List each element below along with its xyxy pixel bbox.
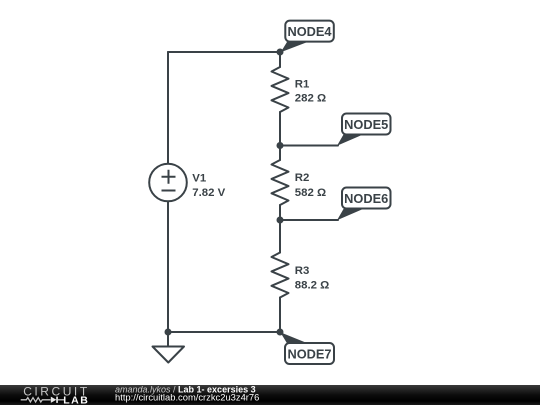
svg-text:NODE5: NODE5 (344, 117, 388, 132)
node NODE4 (281, 21, 334, 53)
R1 value labels (295, 78, 326, 104)
resistor R3 (272, 253, 289, 298)
svg-text:R1: R1 (295, 78, 310, 90)
node dot NODE5 junction (277, 142, 284, 149)
CircuitLab logo wire to LAB (58, 399, 64, 401)
node NODE7 (280, 332, 334, 364)
wire NODE6 tail (280, 219, 338, 221)
svg-text:R2: R2 (295, 172, 310, 184)
resistor R1 (272, 67, 289, 112)
node dot NODE6 junction (277, 217, 284, 224)
ground stub wire (167, 332, 169, 347)
CircuitLab logo resistor zigzag (21, 398, 51, 402)
wire right rail between R2 and R3 (279, 205, 281, 253)
R2 value labels (295, 172, 326, 199)
wire right rail between R1 and R2 (279, 112, 281, 160)
wire left rail lower (167, 201, 169, 332)
wire bottom horizontal (168, 331, 280, 333)
svg-text:7.82 V: 7.82 V (192, 187, 225, 199)
wire right rail segment top (279, 52, 281, 67)
svg-text:582 Ω: 582 Ω (295, 187, 326, 199)
node dot top (NODE4 junction) (277, 49, 284, 56)
node NODE5 (337, 114, 391, 146)
svg-text:NODE4: NODE4 (287, 24, 332, 39)
resistor R2 (272, 160, 289, 205)
node dot NODE7 junction (277, 329, 284, 336)
footer bar (0, 385, 540, 405)
svg-text:LAB: LAB (63, 394, 89, 405)
wire left rail upper (167, 52, 169, 164)
node NODE6 (337, 188, 391, 221)
wire NODE5 tail (280, 145, 338, 147)
svg-text:R3: R3 (295, 265, 310, 277)
wire top horizontal (168, 51, 280, 53)
svg-text:V1: V1 (192, 172, 207, 184)
svg-text:282 Ω: 282 Ω (295, 92, 326, 104)
CircuitLab logo diode (51, 397, 58, 403)
wire right rail bottom (279, 298, 281, 333)
R3 value labels (295, 265, 329, 291)
svg-text:NODE7: NODE7 (287, 347, 331, 362)
ground (153, 347, 185, 363)
junction node dots (165, 49, 284, 336)
voltage source V1 (149, 164, 225, 202)
svg-text:NODE6: NODE6 (344, 191, 388, 206)
svg-text:88.2 Ω: 88.2 Ω (295, 279, 329, 291)
svg-text:http://circuitlab.com/crzkc2u3: http://circuitlab.com/crzkc2u3z4r76 (115, 392, 259, 403)
node dot ground junction (165, 329, 172, 336)
